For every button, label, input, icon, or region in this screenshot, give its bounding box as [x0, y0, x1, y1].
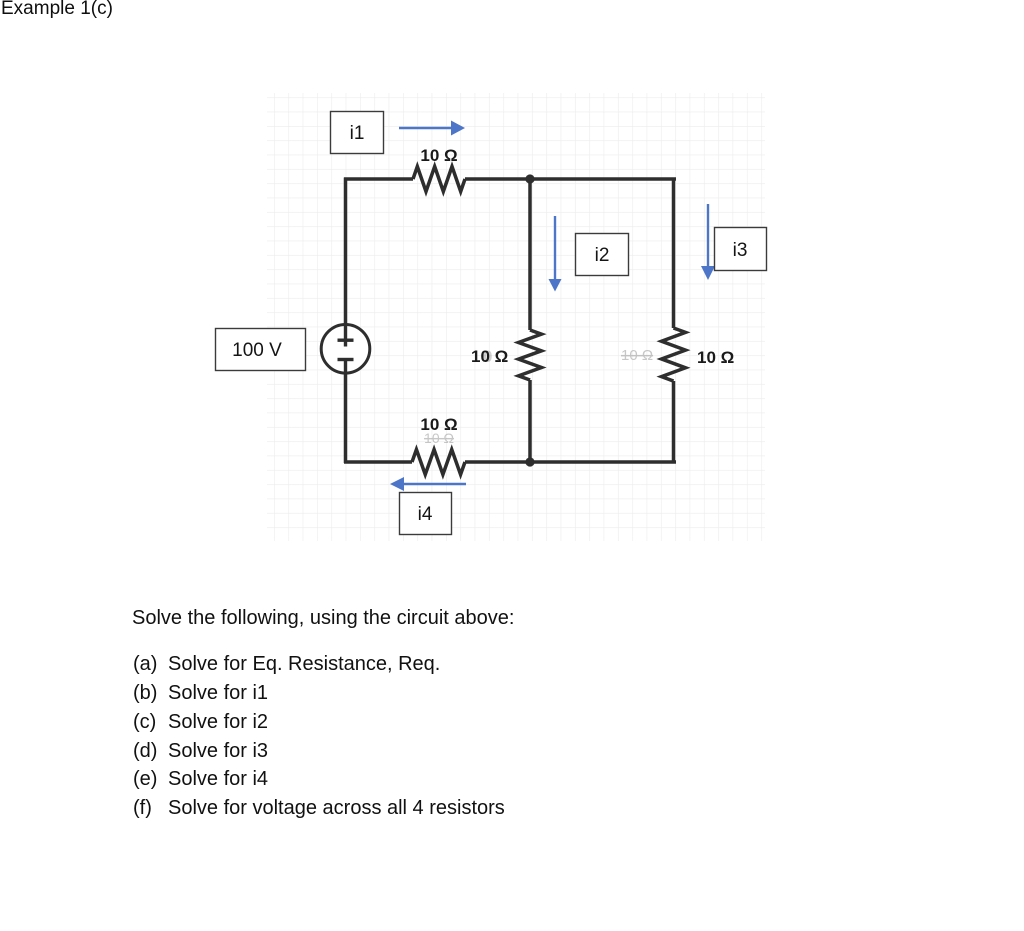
svg-text:i2: i2 — [595, 245, 610, 266]
node junction top (middle branch tap) — [525, 174, 534, 183]
svg-text:10 Ω: 10 Ω — [697, 348, 734, 367]
wire: left side lower (source to bottom-left corner) — [344, 373, 348, 463]
wire: top side from left corner to top resistor — [344, 177, 413, 181]
current arrow i1 (right) — [399, 121, 465, 136]
label box 100 V — [216, 329, 306, 371]
svg-text:10 Ω: 10 Ω — [621, 347, 653, 364]
node junction bottom (middle branch tap) — [525, 457, 534, 466]
wire: bottom side from bottom-left corner to bottom resistor — [344, 460, 412, 464]
svg-text:0: 0 — [483, 347, 492, 366]
label box i3 — [715, 228, 767, 271]
label box i4 — [400, 493, 452, 535]
ghost struck value label (left of R3) — [621, 347, 653, 364]
wire: right side upper — [672, 178, 676, 329]
current arrow i4 (left) — [390, 477, 466, 491]
wire: top side from resistor to top-right corner — [465, 177, 676, 181]
resistor R1 (top, 10 ohm) — [413, 167, 465, 192]
wire: bottom side from resistor to bottom-right corner — [465, 460, 676, 464]
question list — [133, 653, 440, 676]
question heading — [132, 607, 514, 630]
resistor R3 (right, 10 ohm) — [662, 328, 686, 381]
label box i1 — [331, 112, 384, 154]
value label 10 ohm (bottom) — [420, 415, 457, 434]
value label 10 ohm (middle) — [471, 347, 508, 366]
resistor R2 (middle, 10 ohm) — [519, 330, 542, 380]
value label 10 ohm (right) — [697, 348, 734, 367]
current arrow i3 (down) — [701, 204, 715, 280]
value label 10 ohm (top) — [420, 146, 457, 165]
ghost struck value label (below bottom label) — [424, 430, 454, 446]
svg-text:i3: i3 — [733, 240, 748, 261]
svg-text:i4: i4 — [418, 504, 433, 525]
svg-text:100 V: 100 V — [232, 340, 282, 361]
svg-text:10 Ω: 10 Ω — [420, 146, 457, 165]
label box i2 — [576, 234, 629, 276]
resistor R4 (bottom, 10 ohm) — [412, 450, 465, 475]
svg-text:i1: i1 — [350, 123, 365, 144]
voltage source V1 100V — [321, 325, 370, 374]
svg-text:10 Ω: 10 Ω — [424, 430, 454, 446]
wire: middle branch lower — [528, 380, 532, 463]
wire: left side upper (source to top-left corner) — [344, 178, 348, 327]
wire: right side lower — [672, 381, 676, 463]
wire: middle branch upper — [528, 179, 532, 330]
current arrow i2 (down) — [549, 216, 562, 292]
page title — [1, 0, 113, 20]
